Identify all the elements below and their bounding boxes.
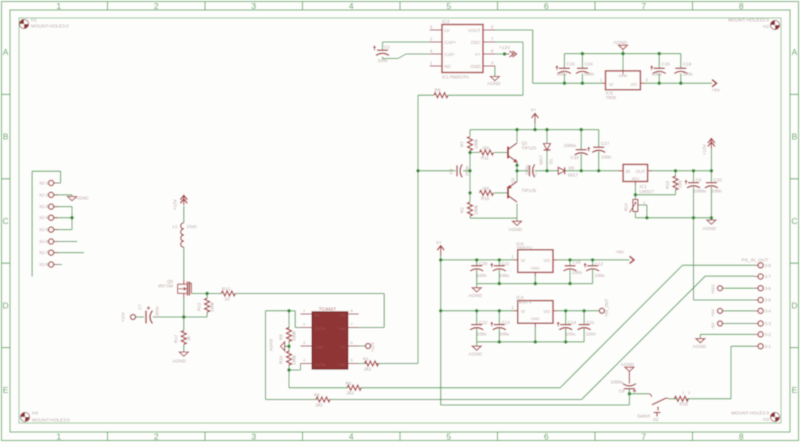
svg-text:1: 1 [56,1,61,11]
svg-text:7: 7 [351,322,353,327]
svg-text:CAP+: CAP+ [445,40,457,45]
svg-text:GND: GND [315,344,324,349]
svg-text:1k: 1k [186,335,191,341]
svg-text:NC: NC [315,312,321,317]
svg-text:C: C [3,216,9,226]
svg-text:2k2: 2k2 [316,403,324,408]
svg-text:R5: R5 [346,381,352,386]
svg-text:X2-8: X2-8 [39,262,49,267]
svg-text:C11: C11 [502,261,510,266]
svg-text:100k: 100k [292,330,297,341]
svg-text:3-8: 3-8 [765,263,772,268]
svg-text:D1: D1 [549,158,554,164]
svg-text:VOUT: VOUT [468,28,481,33]
svg-text:OUTA: OUTA [315,326,326,331]
svg-text:8: 8 [351,308,353,313]
svg-text:R8: R8 [279,334,284,340]
svg-text:8: 8 [739,432,744,442]
svg-text:5: 5 [446,432,451,442]
svg-text:-5V: -5V [711,322,716,329]
svg-text:NC: NC [340,312,346,317]
svg-text:LM317: LM317 [640,189,655,194]
svg-text:Q3: Q3 [511,177,516,184]
svg-text:C6: C6 [696,178,702,183]
svg-text:VO: VO [543,258,550,263]
svg-text:AGND: AGND [509,227,523,232]
svg-text:X2-7: X2-7 [39,250,49,255]
svg-text:3-3: 3-3 [765,321,772,326]
svg-text:GND: GND [471,64,482,69]
svg-text:L1: L1 [173,224,179,229]
svg-text:NC: NC [445,64,452,69]
svg-text:OUTB: OUTB [315,362,326,367]
svg-text:S817: S817 [568,173,579,178]
svg-text:8: 8 [739,1,744,11]
svg-text:OUT: OUT [636,169,646,174]
svg-text:AGND: AGND [693,344,707,349]
svg-text:ICL7660CPA: ICL7660CPA [442,75,470,80]
svg-text:R17: R17 [173,334,178,343]
svg-text:H1: H1 [31,18,37,23]
svg-text:1: 1 [56,432,61,442]
svg-text:H3: H3 [763,417,769,422]
svg-text:+5V: +5V [711,309,716,317]
svg-text:TC4427: TC4427 [319,307,336,313]
svg-text:R7: R7 [460,141,465,147]
svg-text:C: C [791,216,797,226]
svg-text:100k: 100k [474,204,479,215]
svg-text:C19: C19 [683,61,692,66]
svg-text:2k2: 2k2 [347,391,355,396]
svg-text:+12V: +12V [499,45,511,50]
svg-text:100k: 100k [474,138,479,149]
svg-text:100n: 100n [601,155,612,160]
svg-text:V+: V+ [436,240,442,245]
svg-text:INB: INB [339,362,346,367]
svg-text:R15: R15 [665,180,670,189]
svg-text:Switch: Switch [637,413,651,418]
svg-text:R1: R1 [363,357,369,362]
svg-text:3: 3 [643,200,645,205]
svg-text:R16: R16 [481,196,490,201]
svg-text:H2: H2 [763,24,769,29]
svg-text:+5V: +5V [712,88,721,93]
svg-text:5: 5 [446,1,451,11]
svg-text:+12V: +12V [172,199,177,210]
svg-text:X2-5: X2-5 [39,227,49,232]
svg-text:OSC: OSC [471,40,482,45]
svg-text:3-4: 3-4 [765,309,772,314]
svg-text:X2-2: X2-2 [39,192,49,197]
svg-text:2: 2 [154,1,159,11]
svg-text:100u: 100u [557,72,568,77]
svg-text:100u: 100u [378,58,389,63]
svg-text:1k5: 1k5 [482,146,490,151]
svg-text:AGND: AGND [487,81,501,86]
svg-text:B: B [3,132,9,142]
svg-text:4: 4 [349,432,354,442]
svg-text:C2: C2 [384,45,390,50]
svg-text:3: 3 [303,340,305,345]
svg-text:INA: INA [339,326,346,331]
svg-text:1: 1 [303,308,305,313]
svg-text:R12: R12 [197,302,202,311]
svg-text:3-1: 3-1 [765,344,772,349]
svg-text:7: 7 [641,1,646,11]
svg-text:C22: C22 [479,320,488,325]
svg-text:+5V_OUT: +5V_OUT [604,298,609,317]
svg-text:+5V1: +5V1 [711,284,716,294]
svg-text:+8V: +8V [616,249,625,254]
svg-text:GND: GND [531,316,540,321]
svg-text:R18: R18 [680,401,689,406]
svg-text:AGND: AGND [269,339,274,351]
svg-text:V+: V+ [531,108,537,113]
svg-text:AGND: AGND [469,293,483,298]
svg-text:2k2: 2k2 [364,367,372,372]
svg-text:100n: 100n [712,189,723,194]
svg-text:C18: C18 [572,259,581,264]
svg-text:3-5: 3-5 [765,298,772,303]
svg-text:IC3: IC3 [442,19,450,24]
svg-text:MOUNT-HOLES3.0: MOUNT-HOLES3.0 [728,18,769,23]
svg-text:3: 3 [251,432,256,442]
svg-text:7: 7 [641,432,646,442]
svg-text:C12: C12 [595,262,604,267]
svg-text:100k: 100k [292,354,297,365]
svg-text:MOUNT-HOLE3.0: MOUNT-HOLE3.0 [731,411,769,416]
svg-text:D5: D5 [569,165,575,170]
svg-text:2: 2 [688,390,690,395]
svg-text:C16: C16 [662,61,671,66]
svg-text:C14: C14 [568,320,577,325]
svg-text:1000u: 1000u [155,307,160,318]
svg-text:1k5: 1k5 [482,186,490,191]
svg-text:E: E [3,385,9,395]
svg-text:D: D [3,300,9,310]
svg-text:MOUNT-HOLE3.0: MOUNT-HOLE3.0 [31,24,69,29]
svg-text:1: 1 [682,390,684,395]
svg-text:C4: C4 [449,168,454,174]
svg-text:B: B [792,132,798,142]
svg-text:VI: VI [609,82,613,87]
svg-text:R10: R10 [279,355,284,364]
svg-text:AGND: AGND [469,351,483,356]
svg-text:1000u: 1000u [694,189,707,194]
svg-text:C9: C9 [619,388,625,393]
svg-text:6: 6 [544,1,549,11]
svg-text:100u: 100u [652,72,663,77]
svg-text:2: 2 [303,322,305,327]
svg-text:VI: VI [521,258,525,263]
svg-text:10: 10 [225,297,231,302]
svg-text:S2: S2 [653,417,659,422]
svg-text:CAP-: CAP- [445,52,456,57]
svg-text:IN: IN [626,169,631,174]
svg-text:100n: 100n [477,332,488,337]
svg-text:VI: VI [521,309,525,314]
svg-text:C17: C17 [601,141,610,146]
svg-text:1000u: 1000u [564,143,577,148]
svg-text:TIP125: TIP125 [522,188,537,193]
svg-text:C29: C29 [479,261,488,266]
svg-text:AGND: AGND [76,195,90,200]
svg-text:C10: C10 [571,155,580,160]
svg-text:100n: 100n [584,72,595,77]
svg-text:4: 4 [349,1,354,11]
svg-text:ADJ: ADJ [632,176,639,181]
svg-text:X2-3: X2-3 [39,204,49,209]
svg-text:C3: C3 [533,169,538,175]
svg-text:R6: R6 [314,393,320,398]
svg-text:+12V: +12V [370,342,375,352]
svg-text:1000u: 1000u [611,379,624,384]
svg-text:+12V: +12V [121,312,126,322]
svg-text:100n: 100n [586,332,597,337]
svg-text:AGND: AGND [703,226,717,231]
svg-text:10uH: 10uH [187,224,197,229]
svg-text:X2-4: X2-4 [39,215,49,220]
svg-text:VO: VO [543,309,550,314]
svg-text:LV: LV [445,28,450,33]
svg-text:X2-1: X2-1 [39,181,49,186]
svg-text:R9: R9 [435,88,441,93]
svg-text:220: 220 [678,180,683,188]
svg-text:6: 6 [351,340,353,345]
svg-text:7805: 7805 [606,95,617,100]
svg-text:C24: C24 [585,61,594,66]
svg-text:C15: C15 [567,61,576,66]
svg-text:C21: C21 [586,320,595,325]
svg-text:7805TV: 7805TV [516,299,532,304]
svg-text:2: 2 [154,432,159,442]
svg-text:TIP120: TIP120 [522,145,537,150]
svg-text:VS: VS [340,344,346,349]
svg-text:3-6: 3-6 [765,286,772,291]
svg-text:3-2: 3-2 [765,332,772,337]
svg-text:A: A [3,47,9,57]
svg-text:100u: 100u [499,273,510,278]
svg-text:100n: 100n [572,270,583,275]
svg-text:MOUNT-HOLE3.0: MOUNT-HOLE3.0 [32,418,70,423]
svg-text:AGND: AGND [621,362,635,367]
svg-text:R14: R14 [624,203,629,211]
svg-text:6: 6 [544,432,549,442]
svg-text:100u: 100u [565,332,576,337]
svg-text:VO: VO [630,82,637,87]
svg-text:100n: 100n [465,165,470,176]
svg-text:R2: R2 [460,207,465,213]
svg-text:GND: GND [619,73,628,78]
svg-text:R11: R11 [481,156,489,161]
svg-text:100u: 100u [499,332,510,337]
svg-text:S817: S817 [539,155,544,165]
svg-text:100u: 100u [595,273,606,278]
svg-text:IRF740: IRF740 [158,284,173,289]
svg-text:3: 3 [251,1,256,11]
svg-text:A: A [792,47,798,57]
svg-text:C13: C13 [502,320,511,325]
svg-text:X2-6: X2-6 [39,239,49,244]
svg-text:C7: C7 [138,304,143,310]
svg-text:R13: R13 [222,287,231,292]
svg-text:100k: 100k [210,301,215,312]
svg-text:100n: 100n [683,72,694,77]
svg-text:D: D [791,300,797,310]
svg-text:H4: H4 [32,411,38,416]
svg-text:C20: C20 [714,178,723,183]
svg-text:100u: 100u [525,164,530,175]
svg-text:E: E [792,385,798,395]
svg-text:AGND: AGND [614,40,628,45]
svg-text:5: 5 [351,358,353,363]
svg-text:7805TV: 7805TV [516,245,532,250]
svg-text:GND: GND [531,265,540,270]
svg-text:V+: V+ [475,52,481,57]
svg-text:AGND: AGND [173,358,187,363]
svg-text:+12V: +12V [702,144,707,155]
svg-text:3-7: 3-7 [765,274,772,279]
svg-text:100n: 100n [477,273,488,278]
